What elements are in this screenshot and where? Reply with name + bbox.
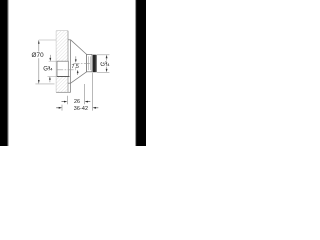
36-42 arrowhead left <box>93 107 96 109</box>
26 arrowhead right <box>64 101 67 103</box>
7,5 arrowhead up (to inlet axis) <box>77 70 79 73</box>
left G3/4 bottom extension line <box>48 76 57 78</box>
escutcheon top edge <box>68 39 71 41</box>
threaded nipple (dark block) <box>93 55 96 72</box>
escutcheon bottom edge <box>68 82 71 84</box>
right G3/4 top extension line <box>97 54 110 56</box>
cone front face <box>86 54 88 71</box>
thread end face line <box>96 55 98 72</box>
Ø70 dimension line <box>38 43 40 81</box>
left G3/4 upper dimension stub <box>49 55 51 58</box>
escutcheon back line <box>70 40 72 93</box>
right G3/4 arrowhead down <box>106 69 108 72</box>
36-42 right extension line <box>92 73 94 111</box>
outlet axis centerline <box>74 62 91 64</box>
Ø70 arrowhead up <box>38 40 40 44</box>
7,5 upper dimension stub <box>75 56 77 59</box>
wall bottom edge <box>56 91 71 93</box>
svg-text:26: 26 <box>74 99 80 105</box>
right G3/4 bottom extension line <box>97 71 110 73</box>
right black bar <box>135 0 137 146</box>
svg-text:Ø70: Ø70 <box>32 52 45 59</box>
Ø70 dimension top extension line <box>39 39 56 41</box>
26 arrowhead left <box>85 101 88 103</box>
collar inner detail lines <box>88 56 90 70</box>
36-42 right dimension stub <box>96 107 99 109</box>
wall hatched strip <box>56 31 68 93</box>
wall face line <box>67 31 69 93</box>
Ø70 dimension bottom extension line <box>35 83 54 85</box>
36-42 left extension line <box>61 105 63 111</box>
union body in wall <box>57 61 68 76</box>
Ø70 arrowhead down <box>38 80 40 84</box>
wall top edge <box>56 30 68 32</box>
left G3/4 lower dimension stub <box>49 80 51 83</box>
26 right dimension stub <box>88 101 91 103</box>
union body bottom edge (heavy) <box>57 76 70 78</box>
7,5 lower dimension stub <box>77 73 79 75</box>
svg-text:7,5: 7,5 <box>72 64 79 70</box>
collar <box>87 54 92 71</box>
left G3/4 top extension line <box>49 60 57 62</box>
right G3/4 dimension line <box>106 58 108 69</box>
36-42 arrowhead right <box>59 107 62 109</box>
svg-text:36-42: 36-42 <box>74 106 88 112</box>
wall back edge <box>55 31 57 93</box>
cone top slope <box>71 40 87 55</box>
7,5 arrowhead down (to outlet axis) <box>75 59 77 62</box>
36-42 left dimension stub <box>56 107 59 109</box>
left G3/4 arrowhead up <box>49 77 51 80</box>
left black bar <box>0 0 7 146</box>
cone bottom slope <box>71 72 87 83</box>
26 right extension line <box>84 84 86 104</box>
26 left dimension stub <box>62 101 65 103</box>
26 left extension line <box>66 96 68 105</box>
inlet axis centerline <box>57 69 76 71</box>
right G3/4 arrowhead up <box>106 55 108 58</box>
left G3/4 arrowhead down <box>49 58 51 61</box>
